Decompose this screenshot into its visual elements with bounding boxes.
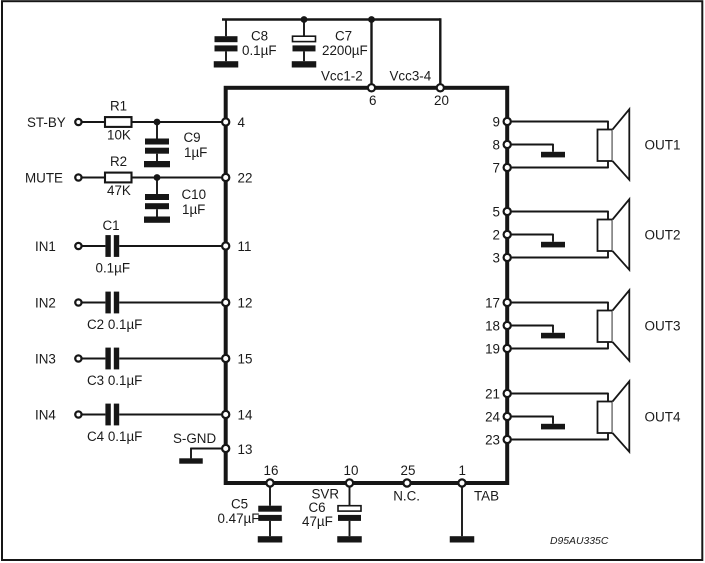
svg-text:IN3: IN3 <box>35 351 56 366</box>
label Vcc1-2 <box>321 69 363 84</box>
label C1 <box>103 218 120 233</box>
label pin 17 <box>485 295 500 310</box>
label pin 15 <box>238 351 253 366</box>
label C5 <box>231 496 248 511</box>
svg-text:5: 5 <box>493 204 500 219</box>
label MUTE <box>25 170 63 185</box>
label OUT3 <box>645 318 681 333</box>
wire pin 13 to ground <box>191 448 222 459</box>
capacitor C6 <box>338 487 361 536</box>
svg-text:13: 13 <box>238 442 253 457</box>
svg-text:C2 0.1µF: C2 0.1µF <box>87 317 142 332</box>
svg-text:OUT2: OUT2 <box>645 227 681 242</box>
label pin 18 <box>485 318 500 333</box>
svg-text:1µF: 1µF <box>184 145 207 160</box>
speaker OUT1 <box>598 109 630 180</box>
ground OUT2 <box>541 242 565 248</box>
wire R2 to pin 22 <box>132 177 225 179</box>
svg-text:2: 2 <box>493 227 500 242</box>
svg-text:OUT3: OUT3 <box>645 318 681 333</box>
wire C3 to pin 15 <box>119 358 224 360</box>
svg-text:OUT1: OUT1 <box>645 137 681 152</box>
pin 7 <box>504 164 511 171</box>
capacitor C2 <box>105 292 119 314</box>
label Vcc3-4 <box>390 69 432 84</box>
pin 18 <box>504 322 511 329</box>
label OUT1 <box>645 137 681 152</box>
wire pin 1 to ground <box>461 487 463 536</box>
label C5 value <box>218 511 260 526</box>
label TAB <box>474 488 499 503</box>
pin 5 <box>504 208 511 215</box>
svg-text:4: 4 <box>238 115 246 130</box>
label C4 value <box>87 429 142 444</box>
svg-text:22: 22 <box>238 170 253 185</box>
label pin 14 <box>238 407 253 422</box>
svg-text:8: 8 <box>493 137 500 152</box>
capacitor C9 <box>145 122 169 161</box>
ground OUT1 <box>541 152 565 158</box>
wire Vcc supply rail <box>222 18 440 20</box>
label R1 value <box>107 127 131 142</box>
svg-text:C6: C6 <box>309 500 326 515</box>
terminal IN1 <box>75 243 81 249</box>
wire speaker return pin 7 <box>511 167 608 169</box>
label C2 value <box>87 317 142 332</box>
pin 25 <box>403 479 410 486</box>
svg-text:17: 17 <box>485 295 500 310</box>
pin 2 <box>504 231 511 238</box>
terminal ST-BY <box>75 119 81 125</box>
pin 24 <box>504 413 511 420</box>
svg-text:R2: R2 <box>110 154 127 169</box>
pin 17 <box>504 299 511 306</box>
ground OUT4 <box>541 424 565 430</box>
pin 13 <box>222 445 229 452</box>
label pin 12 <box>238 295 253 310</box>
svg-text:9: 9 <box>493 114 500 129</box>
wire rail to pin 6 <box>370 20 372 87</box>
svg-text:N.C.: N.C. <box>393 488 420 503</box>
speaker OUT4 <box>598 381 630 452</box>
wire pin 5 to speaker <box>511 211 608 213</box>
svg-text:S-GND: S-GND <box>173 431 216 446</box>
speaker OUT3 <box>598 290 630 361</box>
junction pin-6 branch on rail <box>368 16 375 23</box>
label pin 21 <box>485 386 500 401</box>
label OUT4 <box>645 409 681 424</box>
svg-text:47K: 47K <box>107 183 131 198</box>
wire C2 to pin 12 <box>119 302 224 304</box>
svg-text:C3 0.1µF: C3 0.1µF <box>87 373 142 388</box>
label R1 <box>110 99 127 114</box>
pin 1 <box>458 479 465 486</box>
pin 9 <box>504 118 511 125</box>
label C6 value <box>302 514 333 529</box>
label pin 24 <box>485 409 500 424</box>
wire speaker front <box>607 302 609 350</box>
svg-text:ST-BY: ST-BY <box>27 115 66 130</box>
label R2 <box>110 154 127 169</box>
label S-GND <box>173 431 216 446</box>
label C3 value <box>87 373 142 388</box>
wire pin 8 to ground <box>511 144 553 152</box>
junction node R1-C <box>154 119 161 126</box>
svg-text:6: 6 <box>369 93 376 108</box>
terminal IN3 <box>75 355 81 361</box>
ground C10 <box>144 217 170 223</box>
wire rail to pin 20 <box>439 18 441 86</box>
wire pin 24 to ground <box>511 416 553 424</box>
capacitor C10 <box>145 178 169 217</box>
pin 22 <box>222 174 229 181</box>
wire pin 18 to ground <box>511 325 553 333</box>
label pin 1 <box>459 463 466 478</box>
wire pin 9 to speaker <box>511 121 608 123</box>
wire speaker front <box>607 393 609 441</box>
pin 10 <box>346 479 353 486</box>
svg-text:23: 23 <box>485 432 500 447</box>
label C9 <box>184 130 201 145</box>
pin 11 <box>222 242 229 249</box>
resistor R1 <box>105 117 132 127</box>
label C6 <box>309 500 326 515</box>
svg-text:TAB: TAB <box>474 488 499 503</box>
svg-text:16: 16 <box>264 463 279 478</box>
label pin 19 <box>485 341 500 356</box>
label C10 <box>182 187 207 202</box>
ground OUT3 <box>541 333 565 339</box>
svg-text:C4 0.1µF: C4 0.1µF <box>87 429 142 444</box>
capacitor C8 <box>215 20 238 62</box>
wire pin 2 to ground <box>511 234 553 242</box>
wire speaker return pin 3 <box>511 257 608 259</box>
label C8 <box>251 29 268 44</box>
pin 16 <box>266 479 273 486</box>
label R2 value <box>107 183 131 198</box>
pin 12 <box>222 299 229 306</box>
capacitor C5 <box>258 487 282 536</box>
label C7 <box>335 29 352 44</box>
label pin 7 <box>493 160 500 175</box>
svg-text:C1: C1 <box>103 218 120 233</box>
wire IN2 to C2 <box>82 302 106 304</box>
pin 6 <box>368 84 375 91</box>
pin 15 <box>222 355 229 362</box>
svg-text:15: 15 <box>238 351 253 366</box>
label C1 value <box>96 261 131 276</box>
svg-text:0.1µF: 0.1µF <box>96 261 131 276</box>
ground C5 <box>258 536 283 542</box>
junction C7 on rail <box>301 16 308 23</box>
svg-text:C5: C5 <box>231 496 248 511</box>
label pin 16 <box>264 463 279 478</box>
pin 23 <box>504 436 511 443</box>
label pin 10 <box>344 463 359 478</box>
label C7 value <box>322 43 368 58</box>
wire IN3 to C3 <box>82 358 106 360</box>
label C10 value <box>182 202 205 217</box>
label pin 22 <box>238 170 253 185</box>
wire MUTE to resistor <box>82 177 106 179</box>
label OUT2 <box>645 227 681 242</box>
wire speaker return pin 19 <box>511 348 608 350</box>
wire pin 17 to speaker <box>511 302 608 304</box>
svg-text:C9: C9 <box>184 130 201 145</box>
label pin 20 <box>434 93 449 108</box>
label pin 25 <box>401 463 416 478</box>
pin 14 <box>222 411 229 418</box>
ground C6 <box>337 536 362 542</box>
svg-text:C8: C8 <box>251 29 268 44</box>
label IN1 <box>35 239 56 254</box>
label pin 11 <box>238 239 252 254</box>
ground TAB <box>450 536 475 542</box>
wire C4 to pin 14 <box>119 414 224 416</box>
label ST-BY <box>27 115 66 130</box>
svg-text:18: 18 <box>485 318 500 333</box>
op-amp IC body <box>226 88 508 483</box>
wire IN4 to C4 <box>82 414 106 416</box>
svg-text:10K: 10K <box>107 127 131 142</box>
wire speaker front <box>607 121 609 169</box>
svg-text:3: 3 <box>493 250 500 265</box>
label C8 value <box>242 43 277 58</box>
ground C7 <box>292 61 317 67</box>
label pin 6 <box>369 93 376 108</box>
svg-text:24: 24 <box>485 409 500 424</box>
pin 8 <box>504 141 511 148</box>
wire speaker front <box>607 211 609 259</box>
pin 19 <box>504 345 511 352</box>
terminal IN2 <box>75 299 81 305</box>
label D95AU335C <box>550 536 609 547</box>
svg-text:1: 1 <box>459 463 466 478</box>
svg-text:7: 7 <box>493 160 500 175</box>
ground C8 <box>214 61 239 67</box>
svg-text:OUT4: OUT4 <box>645 409 681 424</box>
capacitor C3 <box>105 348 119 370</box>
svg-text:2200µF: 2200µF <box>322 43 368 58</box>
wire C1 to pin 11 <box>119 245 224 247</box>
svg-text:20: 20 <box>434 93 449 108</box>
pin 21 <box>504 390 511 397</box>
svg-text:IN2: IN2 <box>35 295 56 310</box>
svg-text:47µF: 47µF <box>302 514 333 529</box>
label C9 value <box>184 145 207 160</box>
pin 20 <box>437 84 444 91</box>
svg-text:12: 12 <box>238 295 253 310</box>
label pin 23 <box>485 432 500 447</box>
wire R1 to pin 4 <box>132 121 225 123</box>
label pin 9 <box>493 114 500 129</box>
pin 4 <box>222 118 229 125</box>
wire ST-BY to resistor <box>82 121 106 123</box>
junction node R2-C <box>154 174 161 181</box>
terminal IN4 <box>75 411 81 417</box>
label pin 4 <box>238 115 246 130</box>
wire IN1 to C1 <box>82 245 106 247</box>
svg-text:Vcc1-2: Vcc1-2 <box>321 69 363 84</box>
wire speaker return pin 23 <box>511 439 608 441</box>
svg-text:0.47µF: 0.47µF <box>218 511 260 526</box>
speaker OUT2 <box>598 199 630 269</box>
label pin 2 <box>493 227 500 242</box>
label IN4 <box>35 407 56 422</box>
terminal MUTE <box>75 174 81 180</box>
svg-text:IN4: IN4 <box>35 407 56 422</box>
label pin 8 <box>493 137 500 152</box>
svg-text:Vcc3-4: Vcc3-4 <box>390 69 432 84</box>
svg-text:21: 21 <box>485 386 500 401</box>
label IN3 <box>35 351 56 366</box>
svg-text:C10: C10 <box>182 187 207 202</box>
ground C9 <box>144 161 170 167</box>
svg-text:MUTE: MUTE <box>25 170 63 185</box>
label pin 5 <box>493 204 500 219</box>
svg-text:IN1: IN1 <box>35 239 56 254</box>
ground S-GND <box>179 458 203 463</box>
wire pin 21 to speaker <box>511 393 608 395</box>
svg-text:14: 14 <box>238 407 253 422</box>
svg-text:25: 25 <box>401 463 416 478</box>
svg-text:11: 11 <box>238 239 252 254</box>
svg-text:R1: R1 <box>110 99 127 114</box>
svg-text:10: 10 <box>344 463 359 478</box>
label SVR <box>312 487 340 502</box>
resistor R2 <box>105 173 132 183</box>
capacitor C7 <box>293 20 316 62</box>
label pin 3 <box>493 250 500 265</box>
capacitor C4 <box>105 404 119 426</box>
svg-text:19: 19 <box>485 341 500 356</box>
label pin 13 <box>238 442 253 457</box>
svg-text:C7: C7 <box>335 29 352 44</box>
pin 3 <box>504 254 511 261</box>
label IN2 <box>35 295 56 310</box>
capacitor C1 <box>105 235 119 257</box>
svg-text:0.1µF: 0.1µF <box>242 43 277 58</box>
label N.C. <box>393 488 420 503</box>
svg-text:1µF: 1µF <box>182 202 205 217</box>
svg-text:D95AU335C: D95AU335C <box>550 536 609 547</box>
